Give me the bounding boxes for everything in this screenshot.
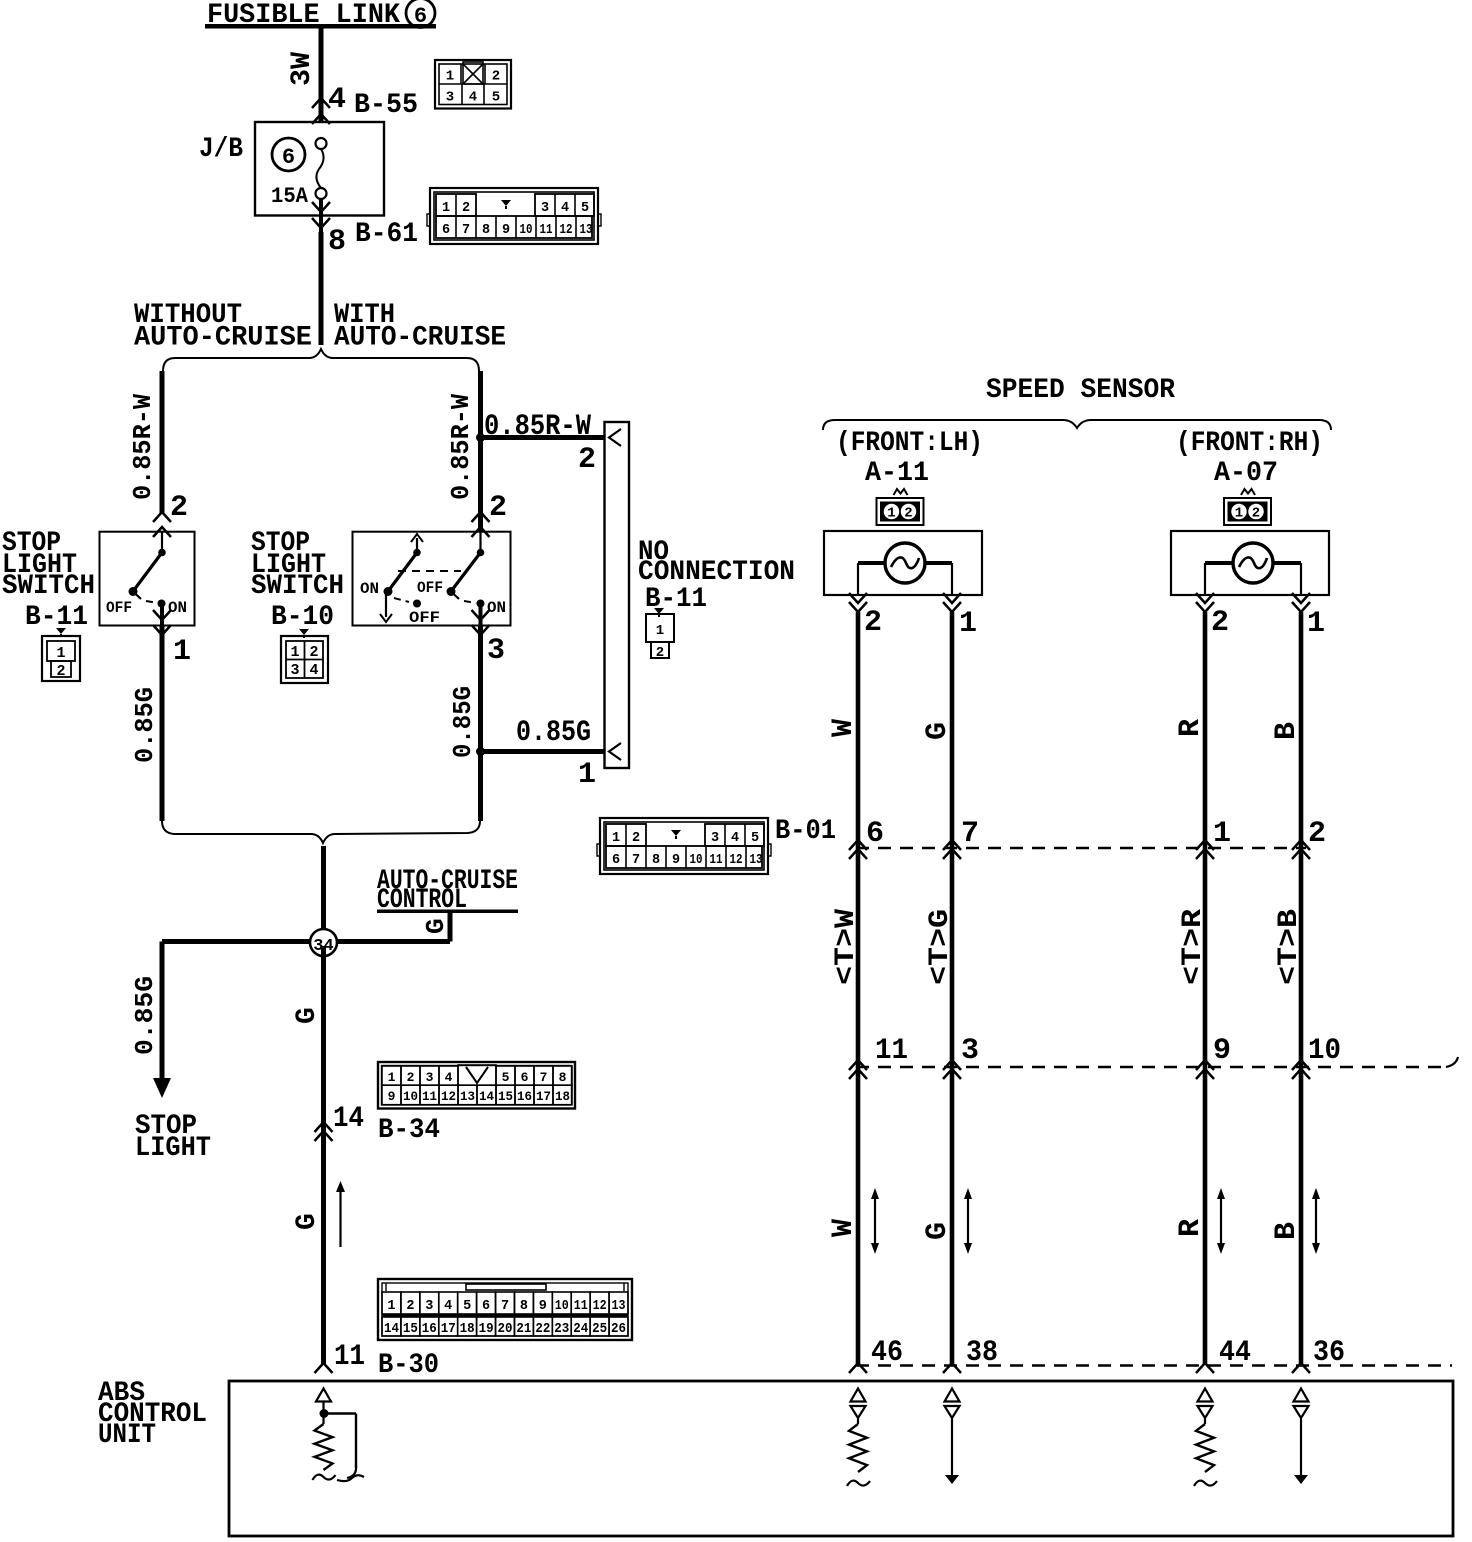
svg-text:10: 10 xyxy=(520,223,533,238)
svg-text:3: 3 xyxy=(961,1034,979,1068)
ABS input W internals xyxy=(847,1389,870,1487)
svg-text:15: 15 xyxy=(498,1089,513,1104)
svg-text:1: 1 xyxy=(612,831,620,846)
wire W sensor to ABS xyxy=(827,612,861,1365)
svg-text:8: 8 xyxy=(482,223,490,238)
wire 0.85R-W right branch upper xyxy=(446,371,481,532)
svg-text:R: R xyxy=(1174,719,1208,737)
label WITH AUTO-CRUISE xyxy=(334,300,506,354)
connector icon B-34 xyxy=(378,1062,575,1109)
svg-text:A-07: A-07 xyxy=(1214,458,1278,489)
connector B-30 pin 11 marker xyxy=(315,1340,440,1381)
svg-text:10: 10 xyxy=(555,1299,569,1314)
connector icon B-61 xyxy=(427,188,601,244)
svg-text:1: 1 xyxy=(442,201,450,216)
svg-text:2: 2 xyxy=(632,831,640,846)
svg-text:8: 8 xyxy=(652,853,660,868)
svg-text:1: 1 xyxy=(290,644,299,661)
svg-text:3: 3 xyxy=(541,201,549,216)
sensor A-07 pin markers xyxy=(1196,593,1325,641)
ABS input pin 11 internals xyxy=(313,1389,365,1482)
svg-text:R: R xyxy=(1174,1219,1208,1237)
svg-text:0.85R-W: 0.85R-W xyxy=(484,410,591,444)
svg-text:1: 1 xyxy=(578,758,596,792)
svg-text:SWITCH: SWITCH xyxy=(2,571,95,602)
svg-text:15: 15 xyxy=(403,1322,418,1337)
label A-07 xyxy=(1214,458,1278,489)
connector B-55 pin 4 marker xyxy=(312,83,418,124)
svg-text:38: 38 xyxy=(966,1336,998,1370)
svg-text:ON: ON xyxy=(360,580,379,598)
svg-text:OFF: OFF xyxy=(106,599,132,617)
svg-text:B-61: B-61 xyxy=(355,219,418,250)
svg-text:7: 7 xyxy=(540,1070,548,1085)
svg-text:1: 1 xyxy=(1235,506,1243,522)
svg-text:(FRONT:RH): (FRONT:RH) xyxy=(1176,428,1323,459)
ABS input B internals xyxy=(1294,1389,1309,1485)
svg-text:SPEED SENSOR: SPEED SENSOR xyxy=(986,375,1175,406)
stop light arrowhead xyxy=(153,1078,171,1098)
svg-text:11: 11 xyxy=(574,1299,588,1314)
svg-text:5: 5 xyxy=(492,90,500,106)
svg-text:4: 4 xyxy=(731,831,739,846)
ABS control unit box xyxy=(98,1378,1453,1536)
svg-text:44: 44 xyxy=(1219,1336,1251,1370)
svg-text:1: 1 xyxy=(388,1070,396,1085)
svg-text:G: G xyxy=(421,918,451,934)
label FRONT:LH xyxy=(836,428,983,459)
svg-text:B-11: B-11 xyxy=(645,584,707,615)
svg-text:4: 4 xyxy=(469,90,477,106)
connector icon B-01 xyxy=(597,818,771,874)
svg-text:0.85G: 0.85G xyxy=(448,686,478,758)
svg-text:3: 3 xyxy=(711,831,719,846)
svg-text:11: 11 xyxy=(540,223,553,238)
svg-text:B-01: B-01 xyxy=(775,816,836,847)
svg-text:6: 6 xyxy=(521,1070,529,1085)
svg-text:4: 4 xyxy=(309,662,318,679)
connector icon B-11 xyxy=(42,628,80,681)
branch split brace xyxy=(163,349,479,371)
ABS input R internals xyxy=(1194,1389,1217,1487)
svg-text:15A: 15A xyxy=(271,184,309,209)
svg-text:2: 2 xyxy=(864,606,882,640)
svg-text:20: 20 xyxy=(498,1322,513,1337)
svg-text:9: 9 xyxy=(388,1089,396,1104)
wire 3W fusible-link to B-55 xyxy=(287,28,321,122)
svg-text:B: B xyxy=(1270,722,1304,740)
svg-text:4: 4 xyxy=(561,201,569,216)
svg-text:12: 12 xyxy=(560,223,573,238)
svg-text:0.85R-W: 0.85R-W xyxy=(446,394,476,500)
svg-text:2: 2 xyxy=(1252,506,1260,522)
dashed junction row 2 xyxy=(856,1057,1458,1067)
svg-text:<T>G: <T>G xyxy=(925,909,956,985)
wire to node 34 xyxy=(321,846,326,930)
svg-text:B-30: B-30 xyxy=(378,1350,439,1381)
svg-text:12: 12 xyxy=(730,853,743,868)
stop light switch B-11 box xyxy=(100,532,195,626)
svg-text:2: 2 xyxy=(462,201,470,216)
speed sensor brace xyxy=(823,420,1331,430)
svg-text:0.85G: 0.85G xyxy=(516,716,591,750)
svg-text:19: 19 xyxy=(479,1322,494,1337)
label SPEED SENSOR xyxy=(986,375,1175,406)
label NO CONNECTION B-11 xyxy=(638,537,795,615)
svg-text:2: 2 xyxy=(492,69,500,85)
joint pin 10 marker xyxy=(1292,1034,1341,1079)
junction to no-connection top xyxy=(476,410,605,477)
svg-text:17: 17 xyxy=(536,1089,551,1104)
connector icon B-10 xyxy=(281,629,328,683)
svg-text:7: 7 xyxy=(501,1299,509,1314)
svg-text:B: B xyxy=(1270,1222,1304,1240)
svg-text:11: 11 xyxy=(334,1340,365,1374)
ABS pin 38 marker xyxy=(943,1336,998,1373)
connector B-34 pin 14 marker xyxy=(315,1102,441,1146)
switch B-10 right pole xyxy=(447,532,507,626)
svg-text:14: 14 xyxy=(333,1102,364,1136)
svg-text:24: 24 xyxy=(573,1322,588,1337)
svg-text:9: 9 xyxy=(672,853,680,868)
svg-text:10: 10 xyxy=(403,1089,418,1104)
auto-cruise control label xyxy=(377,866,518,934)
two-way arrow W xyxy=(871,1188,879,1254)
svg-text:<T>W: <T>W xyxy=(831,909,862,985)
connector icon no-connection B-11 xyxy=(646,608,674,661)
label B-01 xyxy=(775,816,836,847)
svg-text:SWITCH: SWITCH xyxy=(251,571,344,602)
two-way arrow B xyxy=(1312,1188,1320,1254)
connector B-11 pin 2 marker right xyxy=(472,491,508,537)
svg-text:OFF: OFF xyxy=(409,609,440,627)
svg-text:G: G xyxy=(292,1213,323,1230)
svg-text:1: 1 xyxy=(959,607,977,641)
stop light switch B-11 label xyxy=(2,528,95,633)
svg-text:0.85G: 0.85G xyxy=(130,687,160,763)
svg-text:12: 12 xyxy=(441,1089,456,1104)
svg-text:1: 1 xyxy=(1307,607,1325,641)
label A-11 xyxy=(865,458,929,489)
connector icon A-11 xyxy=(877,489,924,525)
svg-text:AUTO-CRUISE: AUTO-CRUISE xyxy=(334,323,506,354)
joint pin 11 marker xyxy=(849,1034,908,1079)
wire stop-light feed xyxy=(130,942,162,1081)
merge brace xyxy=(162,821,480,843)
node 34 xyxy=(162,929,337,956)
wire B sensor to ABS xyxy=(1270,612,1304,1365)
joint pin 9 marker xyxy=(1196,1034,1231,1079)
svg-text:1: 1 xyxy=(56,645,65,662)
svg-text:AUTO-CRUISE: AUTO-CRUISE xyxy=(134,323,312,354)
svg-text:4: 4 xyxy=(445,1070,453,1085)
two-way arrow R xyxy=(1217,1188,1225,1254)
ABS pin 44 marker xyxy=(1196,1336,1251,1373)
svg-text:2: 2 xyxy=(309,644,318,661)
svg-text:13: 13 xyxy=(750,853,763,868)
connector icon A-07 xyxy=(1224,489,1271,525)
svg-text:2: 2 xyxy=(170,491,188,525)
svg-text:9: 9 xyxy=(1213,1034,1231,1068)
wire G B-34 to B-30 xyxy=(292,1130,324,1365)
svg-text:3: 3 xyxy=(487,634,505,668)
ABS pin 36 marker xyxy=(1292,1336,1345,1373)
wire 0.85G left branch xyxy=(130,626,162,822)
svg-text:W: W xyxy=(827,1219,861,1237)
speed sensor FRONT:LH A-11 xyxy=(824,531,982,595)
svg-text:13: 13 xyxy=(612,1299,626,1314)
svg-text:6: 6 xyxy=(866,817,884,851)
wire G node to B-34 xyxy=(292,946,324,1130)
svg-text:1: 1 xyxy=(387,1299,395,1314)
wire from J/B to branch xyxy=(319,232,324,345)
svg-text:46: 46 xyxy=(871,1336,903,1370)
label STOP LIGHT xyxy=(135,1111,211,1164)
connector B-10 pin 3 marker xyxy=(472,610,506,668)
svg-text:11: 11 xyxy=(422,1089,437,1104)
sensor A-11 pin markers xyxy=(849,593,977,641)
connector B-01 pin 7 marker xyxy=(943,817,979,859)
power rail FUSIBLE LINK 6 label xyxy=(205,0,436,31)
svg-text:2: 2 xyxy=(1211,606,1229,640)
svg-text:5: 5 xyxy=(502,1070,510,1085)
svg-text:2: 2 xyxy=(904,506,912,522)
svg-text:G: G xyxy=(292,1007,323,1024)
connector B-11 pin 1 marker xyxy=(153,610,191,669)
svg-text:9: 9 xyxy=(502,223,510,238)
direction arrow up xyxy=(336,1181,345,1247)
svg-text:5: 5 xyxy=(463,1299,471,1314)
wire R sensor to ABS xyxy=(1174,612,1208,1365)
stop light switch B-10 label xyxy=(251,528,344,633)
svg-text:B-55: B-55 xyxy=(354,90,418,121)
svg-text:1: 1 xyxy=(446,69,454,85)
svg-text:3W: 3W xyxy=(287,52,318,86)
svg-text:14: 14 xyxy=(479,1089,494,1104)
svg-text:B-10: B-10 xyxy=(271,602,334,633)
svg-text:2: 2 xyxy=(1308,817,1326,851)
junction block J/B box xyxy=(199,122,384,216)
svg-text:B-34: B-34 xyxy=(378,1115,440,1146)
svg-text:0.85R-W: 0.85R-W xyxy=(128,394,158,500)
svg-text:2: 2 xyxy=(407,1070,415,1085)
svg-text:1: 1 xyxy=(656,623,664,639)
svg-text:4: 4 xyxy=(444,1299,452,1314)
speed sensor FRONT:RH A-07 xyxy=(1171,531,1329,595)
svg-text:UNIT: UNIT xyxy=(98,1420,156,1451)
svg-text:1: 1 xyxy=(1213,817,1231,851)
wire G sensor to ABS xyxy=(921,612,955,1365)
svg-text:W: W xyxy=(827,719,861,737)
svg-text:7: 7 xyxy=(961,817,979,851)
svg-text:6: 6 xyxy=(282,145,295,170)
ABS pin 46 marker xyxy=(849,1336,903,1373)
svg-text:2: 2 xyxy=(406,1299,414,1314)
svg-text:36: 36 xyxy=(1313,1336,1345,1370)
svg-text:26: 26 xyxy=(611,1322,626,1337)
switch B-10 left pole xyxy=(360,534,461,627)
wire auto-cruise to node xyxy=(324,913,451,942)
connector B-01 pin 6 marker xyxy=(849,817,884,859)
svg-text:1: 1 xyxy=(173,635,191,669)
svg-text:5: 5 xyxy=(751,831,759,846)
svg-text:14: 14 xyxy=(384,1322,399,1337)
svg-text:11: 11 xyxy=(710,853,723,868)
no-connection bracket B-11 xyxy=(605,422,630,768)
svg-text:LIGHT: LIGHT xyxy=(135,1133,211,1164)
label WITHOUT AUTO-CRUISE xyxy=(134,300,312,354)
svg-text:G: G xyxy=(921,1222,955,1240)
svg-text:7: 7 xyxy=(462,223,470,238)
svg-text:3: 3 xyxy=(426,1070,434,1085)
svg-text:5: 5 xyxy=(581,201,589,216)
svg-text:ON: ON xyxy=(487,599,506,617)
svg-text:8: 8 xyxy=(559,1070,567,1085)
svg-text:<T>R: <T>R xyxy=(1178,909,1209,985)
svg-text:11: 11 xyxy=(875,1034,908,1068)
svg-text:(FRONT:LH): (FRONT:LH) xyxy=(836,428,983,459)
connector B-61 pin 8 marker xyxy=(312,199,418,259)
svg-text:OFF: OFF xyxy=(417,579,443,597)
svg-text:17: 17 xyxy=(441,1322,456,1337)
svg-text:2: 2 xyxy=(656,645,664,661)
svg-text:13: 13 xyxy=(580,223,593,238)
svg-text:16: 16 xyxy=(422,1322,437,1337)
connector B-01 pin 2 marker xyxy=(1292,817,1326,859)
svg-text:22: 22 xyxy=(535,1322,550,1337)
svg-text:3: 3 xyxy=(446,90,454,106)
connector B-01 dashed junction row xyxy=(856,847,1306,850)
connector icon B-30 xyxy=(378,1279,632,1340)
wire 0.85G right branch xyxy=(448,626,481,822)
svg-text:6: 6 xyxy=(612,853,620,868)
fuse 15A xyxy=(271,138,327,209)
svg-text:4: 4 xyxy=(328,83,346,117)
svg-text:2: 2 xyxy=(578,443,596,477)
svg-text:0.85G: 0.85G xyxy=(130,976,160,1055)
svg-text:J/B: J/B xyxy=(199,134,243,165)
label FRONT:RH xyxy=(1176,428,1323,459)
svg-text:13: 13 xyxy=(460,1089,475,1104)
junction to no-connection bottom xyxy=(476,716,605,792)
svg-text:23: 23 xyxy=(554,1322,569,1337)
svg-text:7: 7 xyxy=(632,853,640,868)
svg-text:25: 25 xyxy=(592,1322,607,1337)
connector B-11 pin 2 marker xyxy=(153,491,188,537)
svg-text:10: 10 xyxy=(1308,1034,1341,1068)
svg-text:<T>B: <T>B xyxy=(1274,909,1305,985)
svg-text:18: 18 xyxy=(555,1089,570,1104)
stop light switch B-10 box xyxy=(353,532,511,626)
connector B-01 pin 1 marker xyxy=(1196,817,1231,859)
svg-text:G: G xyxy=(921,722,955,740)
svg-text:8: 8 xyxy=(328,225,346,259)
twisted pair labels xyxy=(831,909,1305,985)
wire 0.85R-W left branch xyxy=(128,371,162,514)
joint pin 3 marker xyxy=(943,1034,979,1079)
two-way arrow G xyxy=(964,1188,972,1254)
svg-text:18: 18 xyxy=(460,1322,475,1337)
svg-text:2: 2 xyxy=(56,663,65,680)
svg-text:8: 8 xyxy=(520,1299,528,1314)
ABS dashed junction row xyxy=(856,1364,1452,1367)
ABS input G internals xyxy=(945,1389,960,1485)
svg-text:1: 1 xyxy=(887,506,895,522)
svg-text:12: 12 xyxy=(593,1299,607,1314)
svg-text:3: 3 xyxy=(290,662,299,679)
svg-text:ON: ON xyxy=(168,599,187,617)
connector icon B-55 xyxy=(435,60,511,109)
switch B-11 contacts xyxy=(106,532,187,626)
fuse rating circled 6 xyxy=(272,138,305,171)
svg-text:16: 16 xyxy=(517,1089,532,1104)
svg-text:6: 6 xyxy=(482,1299,490,1314)
svg-text:2: 2 xyxy=(489,491,507,525)
svg-text:3: 3 xyxy=(425,1299,433,1314)
svg-text:6: 6 xyxy=(442,223,450,238)
svg-text:21: 21 xyxy=(516,1322,531,1337)
svg-text:9: 9 xyxy=(539,1299,547,1314)
svg-text:10: 10 xyxy=(690,853,703,868)
svg-text:A-11: A-11 xyxy=(865,458,929,489)
